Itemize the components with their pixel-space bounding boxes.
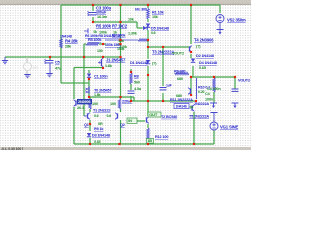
svg-text:0.20: 0.20	[198, 90, 205, 94]
svg-text:1uF: 1uF	[166, 83, 172, 87]
svg-text:100: 100	[110, 102, 116, 106]
svg-text:Q2: Q2	[120, 123, 125, 127]
svg-text:hfe 300: hfe 300	[135, 8, 147, 12]
svg-text:D4 1N4148: D4 1N4148	[199, 61, 217, 65]
svg-text:J1 2N5457: J1 2N5457	[106, 58, 126, 63]
svg-text:R5 100k: R5 100k	[88, 38, 102, 42]
svg-text:R7 100k: R7 100k	[112, 34, 126, 38]
svg-text:2N3906: 2N3906	[78, 100, 90, 104]
svg-text:10k: 10k	[121, 45, 128, 49]
svg-text:680: 680	[176, 94, 182, 98]
svg-text:1.8k: 1.8k	[94, 93, 101, 97]
svg-text:4.5u: 4.5u	[134, 87, 142, 91]
svg-text:OUT: OUT	[149, 112, 158, 117]
svg-text:16.3m: 16.3m	[97, 15, 108, 19]
svg-text:0.65: 0.65	[199, 66, 206, 70]
svg-text:0.6: 0.6	[107, 114, 112, 118]
svg-text:R1 10k: R1 10k	[152, 10, 165, 15]
svg-text:560: 560	[134, 81, 140, 85]
svg-text:T1 2N2222: T1 2N2222	[93, 109, 110, 113]
svg-text:R9 1k: R9 1k	[94, 127, 104, 131]
svg-text:26.1: 26.1	[77, 106, 84, 110]
svg-text:100uF: 100uF	[96, 11, 107, 15]
svg-text:R5 100k: R5 100k	[96, 24, 112, 29]
svg-text:150: 150	[97, 49, 103, 53]
svg-text:VG: VG	[33, 66, 38, 70]
svg-text:T3 2N2222A: T3 2N2222A	[152, 50, 174, 55]
svg-text:R9 680: R9 680	[174, 69, 185, 73]
svg-text:0.6: 0.6	[151, 31, 156, 35]
svg-text:D2 1N4148: D2 1N4148	[196, 54, 214, 58]
svg-text:D5 1N4148: D5 1N4148	[151, 26, 169, 30]
svg-text:Q1: Q1	[84, 123, 89, 127]
svg-text:T0 2N5457: T0 2N5457	[94, 89, 111, 93]
svg-text:R12 100: R12 100	[155, 135, 168, 139]
svg-text:0.65: 0.65	[94, 140, 101, 144]
svg-text:C2: C2	[122, 24, 128, 29]
svg-text:0k: 0k	[94, 30, 98, 34]
svg-text:2N2222A: 2N2222A	[194, 102, 209, 106]
svg-text:-0.1, 0.30 100 [: -0.1, 0.30 100 [	[1, 147, 24, 150]
svg-text:1N4148: 1N4148	[176, 105, 187, 109]
svg-text:680: 680	[177, 77, 183, 81]
svg-text:C4 100n: C4 100n	[207, 87, 221, 91]
svg-text:100n: 100n	[205, 97, 214, 101]
svg-text:T2 BC546: T2 BC546	[161, 115, 177, 119]
svg-text:100: 100	[92, 102, 98, 106]
svg-text:VOUT2: VOUT2	[238, 79, 250, 83]
svg-text:47u: 47u	[55, 67, 62, 71]
svg-text:R4 28k: R4 28k	[65, 39, 78, 44]
svg-text:R8: R8	[134, 75, 139, 79]
svg-text:28k: 28k	[65, 45, 72, 49]
svg-text:99: 99	[190, 105, 194, 109]
svg-text:VOUT2: VOUT2	[172, 52, 184, 56]
svg-text:1.30k: 1.30k	[128, 32, 138, 36]
svg-text:VS2 350m: VS2 350m	[227, 18, 246, 23]
svg-text:C1 100n: C1 100n	[94, 75, 108, 79]
svg-text:C5: C5	[55, 61, 60, 65]
svg-text:0.6: 0.6	[94, 114, 99, 118]
svg-text:T5 2N2222A: T5 2N2222A	[189, 115, 209, 119]
svg-text:1.8k: 1.8k	[105, 64, 113, 68]
svg-text:VG1 SINE: VG1 SINE	[220, 125, 238, 130]
svg-text:D1 1N4148: D1 1N4148	[130, 61, 148, 65]
svg-text:R11 2N2222A: R11 2N2222A	[170, 97, 193, 102]
svg-text:0R: 0R	[98, 122, 103, 126]
svg-text:IN: IN	[128, 118, 132, 123]
svg-text:T4 2N3906: T4 2N3906	[194, 38, 214, 43]
svg-text:D3 1N4148: D3 1N4148	[92, 134, 110, 138]
